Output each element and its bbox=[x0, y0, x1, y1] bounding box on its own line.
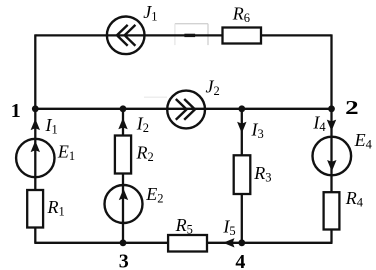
current arrow I3 bbox=[237, 122, 246, 134]
resistor R5 bbox=[168, 235, 207, 252]
node 4 junction bbox=[238, 239, 245, 246]
wire left rail bbox=[34, 34, 36, 242]
svg-text:3: 3 bbox=[119, 251, 129, 270]
current arrow I1 bbox=[31, 119, 40, 131]
voltage source E4 bbox=[313, 137, 352, 176]
voltage source E1 bbox=[16, 139, 54, 177]
junction branch3-mid bbox=[238, 105, 245, 112]
node 2 junction bbox=[328, 105, 335, 112]
wire right rail bbox=[330, 34, 332, 242]
node 3 junction bbox=[120, 239, 127, 246]
node 1 junction bbox=[32, 105, 39, 112]
wire top rail bbox=[35, 34, 331, 36]
resistor R1 bbox=[27, 190, 43, 228]
voltage source E2 bbox=[105, 185, 143, 223]
resistor R2 bbox=[115, 136, 131, 174]
wire bottom rail bbox=[34, 242, 332, 244]
svg-text:4: 4 bbox=[235, 251, 245, 270]
svg-text:1: 1 bbox=[11, 100, 21, 122]
wire middle rail bbox=[35, 108, 331, 110]
resistor R3 bbox=[234, 155, 251, 194]
current arrow I5 bbox=[223, 238, 235, 247]
wire branch 3 bbox=[241, 109, 243, 243]
resistor R4 bbox=[324, 192, 340, 229]
current source J1 bbox=[107, 17, 145, 55]
resistor R6 bbox=[223, 28, 262, 44]
current source J2 bbox=[167, 91, 205, 129]
current arrow I4 bbox=[327, 120, 336, 132]
junction branch2-mid bbox=[120, 105, 127, 112]
ghost artifact line bbox=[144, 96, 167, 98]
ghost artifact dark wire segment bbox=[184, 34, 195, 37]
svg-text:2: 2 bbox=[345, 97, 359, 119]
ghost artifact rectangle bbox=[175, 23, 208, 25]
current arrow I2 bbox=[118, 118, 127, 130]
wire branch 2 bbox=[122, 109, 124, 243]
